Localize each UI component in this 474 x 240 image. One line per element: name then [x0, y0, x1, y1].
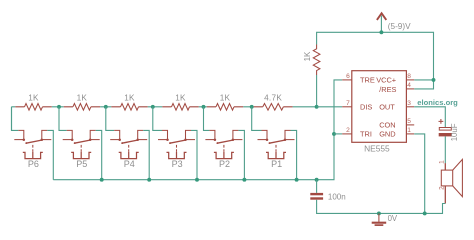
node: chain junction x=59.0: [57, 105, 61, 109]
wire: OUT to 10uF: [414, 107, 445, 128]
node: 100n top junction: [315, 178, 319, 182]
pushbutton P3: [158, 130, 195, 158]
resistor R1 4.7K: [263, 104, 284, 111]
svg-text:5: 5: [407, 118, 411, 125]
wire: P1 right to bus: [291, 130, 297, 179]
IC pin numbers: [346, 73, 411, 134]
svg-text:0V: 0V: [388, 214, 398, 223]
svg-text:1: 1: [439, 160, 446, 164]
capacitor C2 10uF: [439, 128, 451, 131]
svg-text:10uF: 10uF: [450, 123, 459, 141]
svg-text:elonics.org: elonics.org: [417, 98, 458, 107]
wire: tap down to P3 left: [153, 107, 162, 131]
svg-text:1K: 1K: [124, 94, 135, 103]
svg-text:P1: P1: [271, 159, 282, 169]
svg-text:1K: 1K: [220, 94, 231, 103]
speaker LS1: [441, 159, 462, 203]
wire: pin8 to rail: [414, 79, 433, 81]
wire: tap down to P1 left: [252, 107, 262, 131]
node: chain junction x=251.7: [250, 105, 254, 109]
pushbutton P6: [14, 130, 51, 158]
svg-text:2: 2: [439, 186, 446, 190]
svg-text:TRE: TRE: [360, 75, 375, 84]
svg-text:1K: 1K: [28, 94, 39, 103]
svg-text:1K: 1K: [303, 51, 312, 61]
wire: tap down to P4 left: [106, 107, 114, 131]
svg-text:7: 7: [346, 100, 350, 107]
node: bus junction: [195, 178, 199, 182]
wire: tap down to P2 left: [204, 107, 210, 131]
svg-text:TRI: TRI: [360, 130, 372, 139]
wire: left end drop to P6: [11, 107, 13, 131]
svg-text:/RES: /RES: [379, 85, 396, 94]
wire: junction to DIS: [317, 106, 343, 108]
svg-text:1K: 1K: [175, 94, 186, 103]
wire: 100n to ground rail, to speaker: [317, 200, 446, 214]
wire: P4 right to bus: [143, 130, 149, 179]
svg-text:2: 2: [346, 127, 350, 134]
svg-text:OUT: OUT: [379, 102, 395, 111]
node: chain junction x=203.5: [202, 105, 206, 109]
wire: TRI stub link: [334, 133, 342, 135]
wire: tap down to P6 left: [12, 107, 19, 131]
node: arrow junction: [379, 30, 383, 34]
wire: P6 right to bus: [47, 130, 53, 179]
svg-text:DIS: DIS: [360, 102, 372, 111]
wire: resistor chain row: [12, 106, 317, 108]
svg-text:GND: GND: [379, 130, 395, 139]
pushbutton P2: [205, 130, 242, 158]
pushbutton P5: [63, 130, 100, 158]
svg-text:100n: 100n: [328, 193, 346, 202]
wire: button common bus to TRI: [53, 80, 342, 180]
node: chain/1K/DIS junction: [315, 105, 319, 109]
svg-text:CON: CON: [379, 121, 395, 130]
wire: P2 right to bus: [238, 130, 244, 179]
svg-text:P4: P4: [124, 159, 135, 169]
svg-text:P3: P3: [172, 159, 183, 169]
wire: P5 right to bus: [96, 130, 102, 179]
node: bus junction: [295, 178, 299, 182]
IC U1 NE555 box: [352, 71, 407, 143]
svg-text:1K: 1K: [77, 94, 88, 103]
wire: bus to 100n: [316, 180, 318, 193]
svg-text:8: 8: [407, 73, 411, 80]
svg-text:4.7K: 4.7K: [264, 94, 282, 103]
svg-text:1: 1: [407, 127, 411, 134]
node: bus junction: [100, 178, 104, 182]
resistor R2 1K: [216, 104, 234, 111]
capacitor C1 100n: [310, 193, 323, 195]
svg-text:VCC+: VCC+: [376, 75, 396, 84]
svg-text:P5: P5: [76, 159, 87, 169]
ground 0V symbol: [377, 211, 381, 215]
svg-text:4: 4: [407, 82, 411, 89]
node: TRI junction: [332, 132, 336, 136]
svg-text:P2: P2: [219, 159, 230, 169]
wire: IC GND down: [414, 134, 425, 214]
pushbutton P1: [258, 130, 295, 158]
svg-text:3: 3: [407, 100, 411, 107]
node: gnd junction: [423, 211, 427, 215]
svg-text:(5-9)V: (5-9)V: [388, 22, 411, 31]
speaker pin numbers: [439, 160, 446, 190]
pushbutton P4: [110, 130, 147, 158]
wire: P3 right to bus: [191, 130, 197, 179]
resistor R6 1K: [25, 104, 43, 111]
svg-text:P6: P6: [28, 159, 39, 169]
wire: tap down to P5 left: [59, 107, 67, 131]
resistor R4 1K: [121, 104, 139, 111]
node: bus junction: [242, 178, 246, 182]
resistor R3 1K: [172, 104, 190, 111]
wire: 10uF to speaker: [444, 136, 446, 163]
IC pin stubs: [342, 80, 414, 134]
IC pin names: [360, 75, 397, 138]
svg-text:NE555: NE555: [364, 143, 390, 153]
wire: V+ rail: [317, 32, 434, 89]
power arrow: [380, 16, 382, 32]
svg-text:6: 6: [346, 73, 350, 80]
node: rail/pin8 junction: [432, 78, 436, 82]
node: chain junction x=105.8: [104, 105, 108, 109]
node: chain junction x=152.8: [151, 105, 155, 109]
resistor R5 1K: [73, 104, 91, 111]
resistor R7 1K vertical: [316, 75, 318, 107]
node: bus junction: [147, 178, 151, 182]
